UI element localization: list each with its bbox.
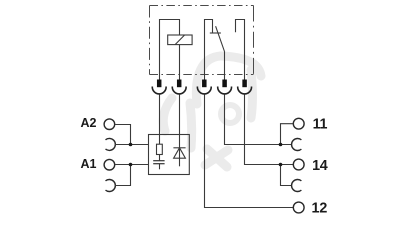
wire A1 circle to box xyxy=(115,164,149,166)
terminal circle A2 xyxy=(104,119,115,130)
wire coil loop top xyxy=(160,20,180,81)
terminal pin T4 xyxy=(218,80,232,94)
socket arc 14 xyxy=(292,180,302,192)
dash-dot relay boundary top xyxy=(150,5,254,7)
socket arc 11 xyxy=(292,139,302,151)
svg-text:12: 12 xyxy=(312,201,328,217)
contact NC fixed tick xyxy=(210,32,221,34)
svg-text:A1: A1 xyxy=(81,157,97,171)
relay coil K1 xyxy=(168,35,192,45)
junction 14 xyxy=(279,163,283,167)
contact moving arm xyxy=(216,26,225,51)
dash-dot relay boundary left xyxy=(149,6,151,75)
wire 11 circle to riser xyxy=(281,124,294,145)
diode V1 xyxy=(173,135,185,167)
wire A2 circle to node xyxy=(115,125,131,145)
capacitor C1 xyxy=(153,161,164,170)
resistor R1 xyxy=(157,135,163,161)
wire NO terminal branch xyxy=(236,20,245,81)
terminal pin T2 xyxy=(172,80,186,94)
indicator/protection box xyxy=(149,135,190,175)
junction 11 xyxy=(279,143,283,147)
terminal circle 12 xyxy=(293,202,304,213)
wire T3 to terminal 12 xyxy=(205,95,294,208)
dash-dot relay boundary right xyxy=(253,6,255,75)
wire NC terminal branch xyxy=(205,20,213,81)
wire A1 node to socket xyxy=(115,165,131,186)
wire common riser xyxy=(224,52,226,81)
wire 14 node to socket xyxy=(281,165,292,186)
dash-dot relay boundary bottom xyxy=(150,74,254,76)
watermark swirl xyxy=(163,56,261,167)
wire T5 to node 14 xyxy=(245,95,294,165)
terminal pin T3 xyxy=(197,80,211,94)
junction A2 xyxy=(129,143,133,147)
svg-text:A2: A2 xyxy=(81,116,97,130)
svg-text:11: 11 xyxy=(313,117,328,133)
socket arc below A1 xyxy=(106,180,116,192)
wire T1 to box xyxy=(159,95,161,135)
wire A2 node to box xyxy=(115,144,149,146)
terminal circle A1 xyxy=(104,159,115,170)
wire coil bottom xyxy=(179,45,181,80)
wire T2 to box xyxy=(179,95,181,135)
socket arc below A2 xyxy=(106,138,116,150)
terminal circle 14 xyxy=(293,159,304,170)
junction A1 xyxy=(129,163,133,167)
terminal circle 11 xyxy=(293,118,304,129)
terminal pin T1 xyxy=(152,80,166,94)
svg-text:14: 14 xyxy=(312,158,328,174)
terminal pin T5 xyxy=(238,80,252,94)
wire T4 to node 11 xyxy=(225,95,292,145)
